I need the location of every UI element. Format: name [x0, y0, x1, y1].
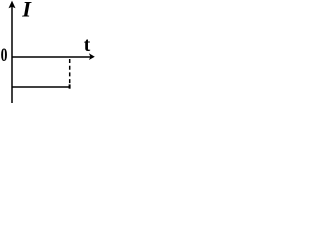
- dashed drop line: [69, 59, 71, 83]
- horizontal axis arrowhead: [89, 53, 95, 60]
- horizontal axis (t axis): [12, 56, 91, 58]
- vertical axis arrowhead: [9, 1, 16, 9]
- svg-text:0: 0: [1, 45, 8, 65]
- pulse (step) line: [12, 86, 70, 88]
- pulse end tick: [69, 84, 71, 88]
- background: [0, 0, 95, 103]
- vertical axis (I axis): [11, 7, 13, 104]
- svg-text:t: t: [84, 35, 91, 56]
- svg-text:I: I: [21, 0, 32, 22]
